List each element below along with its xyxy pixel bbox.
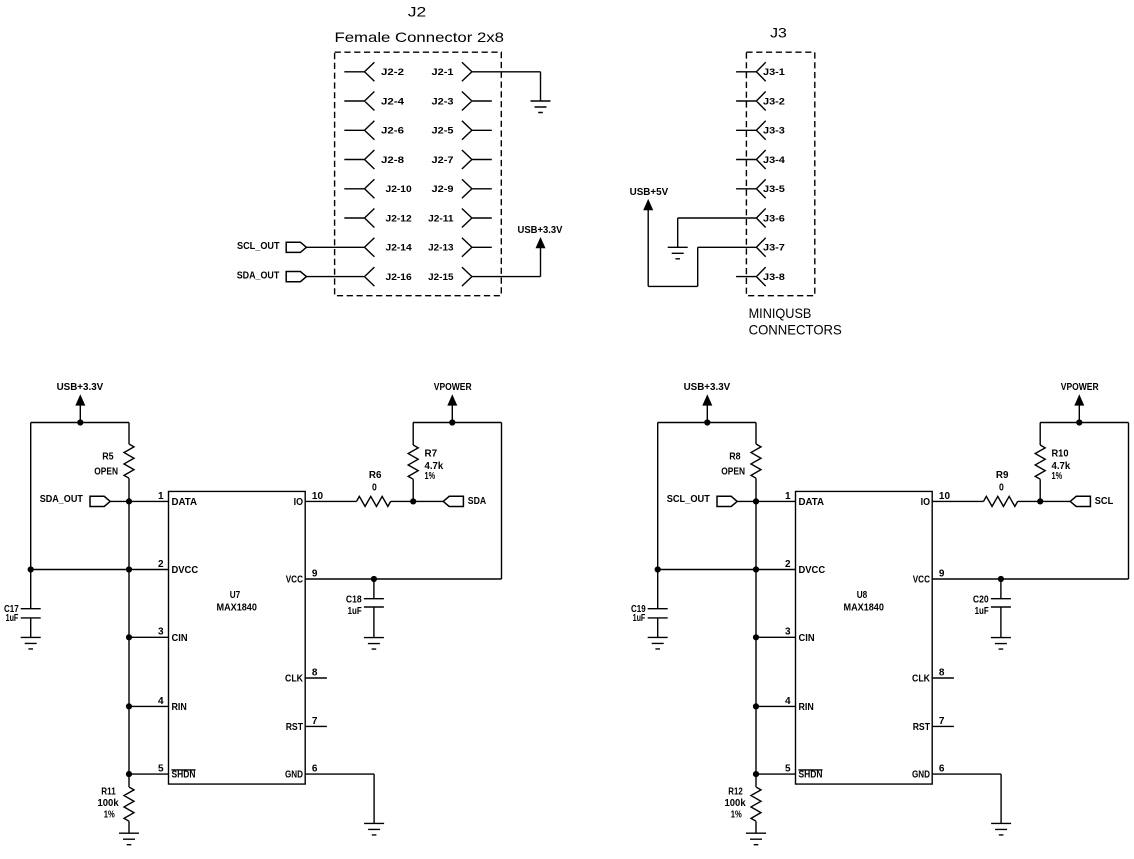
svg-text:J2-3: J2-3 [432,96,454,106]
svg-text:USB+3.3V: USB+3.3V [518,225,563,236]
svg-text:J2-7: J2-7 [432,155,454,165]
svg-text:J3-6: J3-6 [763,213,785,223]
svg-text:C20: C20 [973,594,989,605]
svg-text:R11: R11 [101,787,116,798]
svg-text:J2-5: J2-5 [432,126,454,136]
svg-text:SDA: SDA [468,496,486,507]
svg-text:SDA_OUT: SDA_OUT [40,494,83,505]
svg-text:J3-2: J3-2 [763,96,785,106]
svg-text:J2-8: J2-8 [381,155,404,165]
svg-text:J2: J2 [408,5,427,20]
svg-text:J3-8: J3-8 [763,272,785,282]
svg-text:J2-6: J2-6 [381,126,404,136]
svg-text:U8: U8 [857,590,868,601]
svg-text:J2-16: J2-16 [386,272,412,282]
svg-text:SDA_OUT: SDA_OUT [237,270,280,281]
svg-text:J2-13: J2-13 [428,243,453,253]
svg-text:J2-10: J2-10 [386,184,412,194]
svg-text:R9: R9 [996,470,1009,481]
svg-text:J2-1: J2-1 [432,67,454,77]
svg-text:J3-7: J3-7 [763,243,785,253]
svg-text:J2-11: J2-11 [428,213,453,223]
svg-text:C19: C19 [631,604,646,615]
svg-text:C18: C18 [346,594,362,605]
svg-text:J2-4: J2-4 [381,96,404,106]
svg-text:USB+5V: USB+5V [630,187,669,198]
svg-text:J2-12: J2-12 [386,213,412,223]
svg-text:J3-3: J3-3 [763,126,785,136]
svg-text:J3: J3 [770,26,787,41]
svg-text:Female Connector 2x8: Female Connector 2x8 [335,29,505,45]
svg-text:R6: R6 [369,470,382,481]
svg-text:C17: C17 [4,604,19,615]
svg-text:J2-14: J2-14 [386,243,412,253]
svg-text:J2-2: J2-2 [381,67,404,77]
svg-text:R12: R12 [728,787,743,798]
svg-text:R10: R10 [1052,448,1069,459]
svg-text:J2-9: J2-9 [432,184,454,194]
svg-text:J3-4: J3-4 [763,155,785,165]
svg-text:J3-1: J3-1 [763,67,785,77]
svg-text:R8: R8 [729,452,741,463]
svg-text:R7: R7 [425,448,438,459]
svg-text:SCL_OUT: SCL_OUT [237,241,280,252]
svg-text:SCL_OUT: SCL_OUT [667,494,710,505]
svg-text:U7: U7 [230,590,241,601]
svg-text:J3-5: J3-5 [763,184,785,194]
svg-text:R5: R5 [102,452,114,463]
svg-text:J2-15: J2-15 [428,272,453,282]
svg-text:CONNECTORS: CONNECTORS [749,322,842,338]
svg-text:MINIQUSB: MINIQUSB [749,305,812,321]
svg-text:SCL: SCL [1095,496,1113,507]
